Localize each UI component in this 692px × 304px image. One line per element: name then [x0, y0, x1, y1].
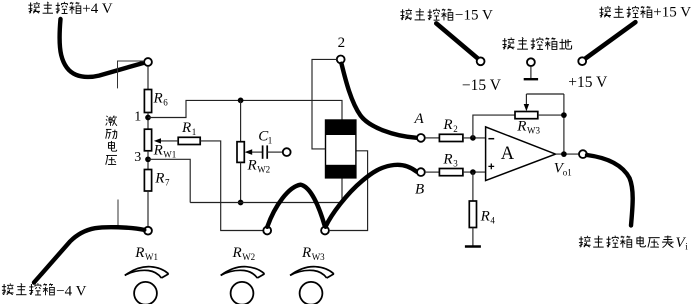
wire non-inverting node to R4	[472, 172, 474, 201]
wire M2 to transformer secondary right	[329, 151, 368, 231]
wire A to R2	[425, 137, 440, 139]
label Vo1	[554, 161, 572, 178]
wire B to R3	[425, 171, 440, 173]
label C1	[258, 129, 272, 146]
node inverting input	[470, 135, 476, 141]
svg-text:A: A	[501, 144, 515, 164]
R1 wiper arrow to RW1	[154, 138, 178, 143]
resistor R3	[439, 169, 463, 176]
knob RW1 arc	[125, 267, 169, 278]
svg-text:R: R	[480, 209, 490, 225]
svg-text:3: 3	[453, 159, 458, 169]
wire R7 to -4V terminal	[147, 191, 149, 227]
svg-text:W1: W1	[163, 150, 176, 160]
svg-text:R: R	[232, 245, 242, 261]
wire terminal 2 to transformer core	[312, 59, 337, 148]
resistor R1	[178, 137, 200, 144]
label RW3	[516, 119, 540, 136]
svg-text:2: 2	[453, 124, 458, 134]
svg-text:W3: W3	[527, 126, 540, 136]
svg-text:6: 6	[163, 98, 168, 108]
knob RW3 arc	[290, 267, 334, 278]
svg-text:1: 1	[134, 109, 141, 124]
resistor R7	[144, 170, 151, 192]
terminal -4 V	[144, 227, 152, 235]
potentiometer RW1	[144, 129, 151, 151]
wire bottom rail to transformer bottom	[190, 178, 342, 203]
wire top node to RW2	[240, 100, 242, 141]
label R2	[442, 117, 457, 134]
patch cord Vo1 to voltmeter	[587, 155, 633, 226]
resistor R4	[469, 201, 476, 228]
svg-text:+15 V: +15 V	[568, 74, 608, 91]
svg-text:W2: W2	[257, 164, 270, 174]
svg-text:−15 V: −15 V	[462, 77, 502, 94]
svg-text:7: 7	[165, 178, 170, 188]
svg-text:W2: W2	[242, 252, 255, 262]
svg-text:B: B	[415, 182, 424, 198]
wire R4 to ground	[472, 228, 474, 247]
node junction top rail	[238, 98, 244, 104]
label 接主控箱-15 V	[400, 8, 493, 24]
label R3	[442, 152, 458, 169]
svg-text:R: R	[442, 117, 452, 133]
wire R1 to terminal M1	[200, 141, 263, 231]
svg-text:R: R	[153, 90, 163, 106]
resistor R6	[144, 90, 151, 113]
svg-text:R: R	[442, 152, 452, 168]
label RW1	[153, 143, 177, 160]
svg-text:4: 4	[490, 216, 495, 226]
RW3 wiper arrow and tie to output side	[524, 94, 564, 111]
svg-text:R: R	[301, 245, 311, 261]
op-amp U1	[486, 127, 556, 181]
patch cord to +15 V terminal	[585, 22, 635, 58]
node non-inverting input	[470, 169, 476, 175]
excitation voltage bracket top	[118, 61, 145, 88]
terminal ground	[527, 58, 535, 66]
label 接主控箱+15 V	[599, 5, 691, 21]
wire terminal +4V to R6	[147, 66, 149, 90]
wire node 3 to bottom rail	[148, 159, 190, 202]
capacitor C1	[263, 145, 283, 158]
wire R3 to non-inverting input	[463, 171, 486, 173]
node output	[561, 151, 567, 157]
svg-text:−15 V: −15 V	[455, 8, 493, 24]
svg-text:+4 V: +4 V	[82, 1, 112, 17]
patch cord to -15 V terminal	[436, 23, 478, 58]
label knob RW1	[134, 245, 158, 262]
terminal 2	[337, 56, 345, 64]
excitation voltage bracket bottom	[117, 200, 119, 230]
terminal +4 V	[144, 58, 152, 66]
svg-text:−4 V: −4 V	[56, 283, 86, 299]
svg-text:o1: o1	[563, 167, 572, 177]
terminal A	[417, 134, 425, 142]
svg-text:3: 3	[134, 150, 141, 165]
svg-text:R: R	[247, 157, 257, 173]
node 3	[145, 156, 151, 162]
svg-text:R: R	[181, 120, 191, 136]
label 激励电压 (vertical)	[106, 116, 118, 165]
svg-text:2: 2	[338, 35, 346, 51]
ground (R4)	[465, 245, 481, 247]
label R6	[153, 90, 169, 107]
node 1	[145, 115, 151, 121]
terminal B	[417, 168, 425, 176]
knob RW3	[300, 282, 323, 304]
wire op-amp output to terminal	[556, 153, 580, 155]
terminal C1 output	[283, 148, 291, 156]
transformer (inductive displacement sensor)	[326, 120, 356, 178]
potentiometer RW2	[237, 142, 244, 163]
RW2 wiper arrow from C1	[245, 149, 263, 155]
label 接主控箱-4 V	[2, 283, 87, 299]
terminal M2	[321, 227, 329, 235]
wire RW1 to R7	[147, 151, 149, 170]
label knob RW2	[232, 245, 256, 262]
potentiometer RW3	[515, 112, 538, 119]
label RW2	[247, 157, 271, 174]
terminal +15 V	[578, 57, 586, 65]
knob RW2 arc	[221, 267, 265, 278]
patch cord from 接主控箱+4 V to excitation terminal	[60, 19, 145, 77]
terminal M1	[263, 227, 271, 235]
patch cord terminal 2 to A	[342, 64, 417, 138]
terminal Vo1	[579, 150, 587, 158]
label 接主控箱地	[502, 37, 571, 49]
svg-text:R: R	[154, 171, 164, 187]
svg-text:R: R	[516, 119, 526, 135]
node junction bottom rail	[238, 200, 244, 206]
label 接主控箱+4 V	[28, 1, 112, 17]
label R4	[480, 209, 496, 226]
svg-text:W1: W1	[145, 252, 158, 262]
knob RW1	[134, 282, 157, 304]
label knob RW3	[301, 245, 325, 262]
feedback wire inverting node to RW3	[473, 115, 515, 138]
knob RW2	[231, 282, 254, 304]
wire RW2 to bottom rail	[240, 162, 242, 202]
svg-text:1: 1	[268, 135, 273, 145]
patch cord to 接主控箱-4 V	[34, 227, 144, 282]
patch cord M2 to B	[326, 165, 417, 227]
wire R6 to RW1	[147, 113, 149, 130]
ground (main)	[524, 66, 538, 79]
svg-text:R: R	[153, 143, 163, 159]
svg-text:1: 1	[192, 127, 197, 137]
wire RW3 right to output node	[538, 94, 564, 154]
svg-text:A: A	[414, 111, 425, 127]
wire node 1 to transformer primary top	[148, 100, 342, 120]
terminal -15 V	[477, 57, 485, 65]
patch cord M1 to M2	[267, 185, 325, 227]
wire R2 to inverting input	[463, 137, 486, 139]
label 接主控箱电压表Vi	[579, 235, 688, 251]
node RW3 output side	[561, 112, 567, 118]
resistor R2	[439, 134, 463, 141]
svg-text:W3: W3	[312, 252, 325, 262]
label R7	[154, 171, 170, 188]
svg-text:R: R	[134, 245, 144, 261]
svg-text:+15 V: +15 V	[653, 5, 691, 21]
label R1	[181, 120, 196, 137]
